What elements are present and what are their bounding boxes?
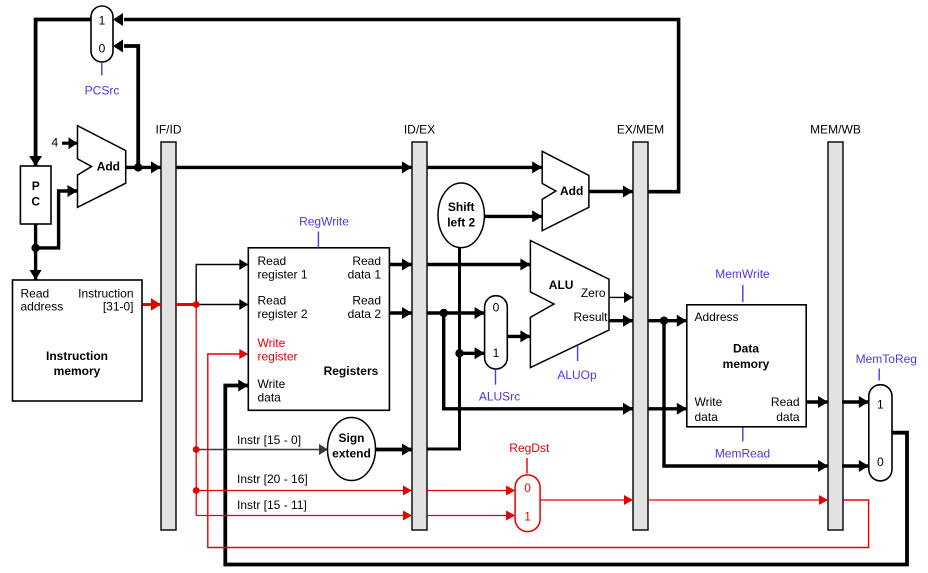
svg-text:ID/EX: ID/EX [404, 123, 435, 137]
svg-text:Data: Data [733, 341, 759, 355]
svg-text:Write: Write [258, 377, 286, 391]
svg-text:Add: Add [560, 184, 583, 198]
svg-text:register: register [258, 350, 298, 364]
svg-text:data: data [695, 410, 719, 424]
svg-text:Registers: Registers [324, 364, 379, 378]
svg-text:data: data [776, 410, 800, 424]
svg-text:RegWrite: RegWrite [299, 214, 349, 228]
svg-text:register 1: register 1 [258, 268, 308, 282]
svg-text:MEM/WB: MEM/WB [810, 123, 861, 137]
svg-text:data 2: data 2 [348, 307, 382, 321]
svg-text:RegDst: RegDst [509, 441, 550, 455]
svg-text:Read: Read [771, 395, 800, 409]
svg-text:ALUSrc: ALUSrc [479, 390, 520, 404]
svg-text:Instr [20 - 16]: Instr [20 - 16] [237, 472, 308, 486]
svg-text:Shift: Shift [448, 200, 475, 214]
svg-text:Read: Read [258, 254, 287, 268]
svg-text:1: 1 [877, 397, 884, 411]
svg-text:Add: Add [97, 159, 120, 173]
svg-text:Write: Write [258, 336, 286, 350]
svg-text:extend: extend [332, 447, 371, 461]
svg-text:Instruction: Instruction [78, 287, 133, 301]
svg-text:MemRead: MemRead [715, 447, 770, 461]
svg-text:MemWrite: MemWrite [715, 267, 770, 281]
svg-text:Instruction: Instruction [46, 349, 108, 363]
svg-text:0: 0 [99, 41, 106, 55]
svg-text:0: 0 [493, 301, 500, 315]
svg-text:data: data [258, 390, 282, 404]
svg-text:EX/MEM: EX/MEM [617, 123, 664, 137]
svg-text:Write: Write [695, 395, 723, 409]
svg-text:Sign: Sign [339, 431, 365, 445]
svg-text:MemToReg: MemToReg [856, 352, 917, 366]
svg-text:1: 1 [524, 510, 531, 524]
svg-text:Instr [15 - 0]: Instr [15 - 0] [237, 433, 301, 447]
svg-text:Result: Result [573, 310, 608, 324]
svg-text:Zero: Zero [581, 286, 606, 300]
svg-text:Address: Address [695, 310, 739, 324]
svg-text:Read: Read [352, 294, 381, 308]
svg-text:Read: Read [21, 287, 50, 301]
svg-text:left 2: left 2 [447, 216, 475, 230]
svg-text:register 2: register 2 [258, 307, 308, 321]
svg-text:1: 1 [493, 346, 500, 360]
svg-text:0: 0 [524, 481, 531, 495]
svg-text:ALU: ALU [549, 278, 574, 292]
svg-text:0: 0 [877, 455, 884, 469]
svg-text:Read: Read [258, 294, 287, 308]
svg-text:ALUOp: ALUOp [557, 368, 597, 382]
svg-text:memory: memory [723, 357, 770, 371]
svg-text:PCSrc: PCSrc [85, 84, 120, 98]
svg-text:address: address [21, 300, 64, 314]
svg-text:[31-0]: [31-0] [103, 300, 134, 314]
svg-text:Read: Read [352, 254, 381, 268]
svg-text:IF/ID: IF/ID [156, 123, 182, 137]
svg-text:data 1: data 1 [348, 268, 382, 282]
svg-text:P: P [32, 179, 40, 193]
svg-text:memory: memory [54, 364, 101, 378]
svg-text:1: 1 [99, 13, 106, 27]
svg-text:4: 4 [51, 136, 58, 150]
svg-text:Instr [15 - 11]: Instr [15 - 11] [237, 498, 307, 512]
svg-text:C: C [31, 195, 40, 209]
